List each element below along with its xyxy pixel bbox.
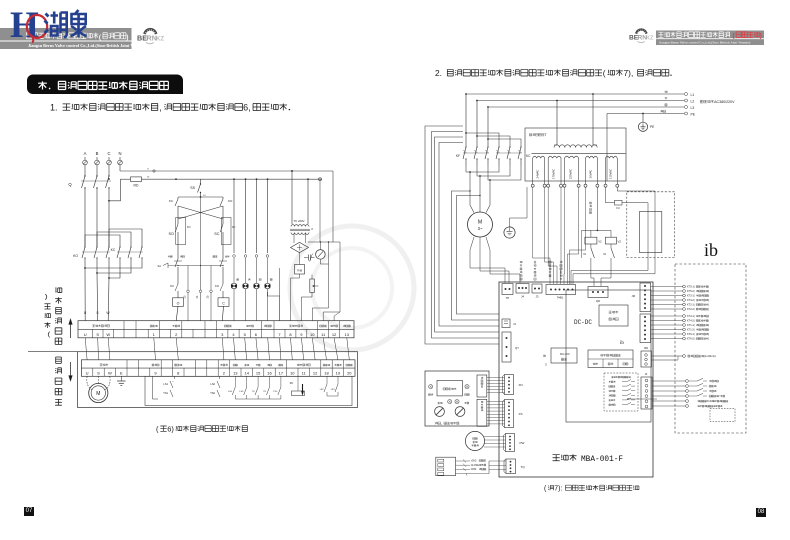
spare dashed box xyxy=(710,409,735,422)
svg-text:DC24V: DC24V xyxy=(707,401,715,403)
svg-text:220VAC: 220VAC xyxy=(569,169,573,179)
svg-text:170VAC: 170VAC xyxy=(552,169,556,179)
ib isolation box xyxy=(543,348,577,366)
svg-text:W: W xyxy=(106,311,110,315)
svg-text:QD: QD xyxy=(596,299,600,303)
connector JX xyxy=(641,373,652,409)
svg-text:2: 2 xyxy=(223,371,226,376)
logo char hu xyxy=(45,12,67,38)
right header banner strip xyxy=(656,31,764,46)
svg-text:KT5-2(: KT5-2( xyxy=(687,290,695,293)
contactor KO main contacts xyxy=(73,246,110,262)
earth terminal PE xyxy=(638,114,654,132)
aux contact KO nc xyxy=(220,197,233,218)
svg-text:): ) xyxy=(708,299,709,302)
remote input dashed box xyxy=(604,373,638,411)
connector TQ xyxy=(504,459,525,474)
svg-text:KC: KC xyxy=(111,248,116,252)
svg-text:MBA-001-F: MBA-001-F xyxy=(581,456,623,464)
ib dashed enclosure xyxy=(675,264,746,433)
connector J1 xyxy=(502,319,516,328)
svg-text:LK3: LK3 xyxy=(331,389,336,391)
knob 2 xyxy=(455,407,465,417)
svg-text:V2: V2 xyxy=(618,240,622,244)
handle SA xyxy=(158,263,178,268)
motor to board wires xyxy=(470,237,520,283)
phase label N xyxy=(118,151,121,156)
svg-text:ib: ib xyxy=(704,240,718,260)
svg-text:1.: 1. xyxy=(50,103,58,113)
svg-text:KT2-2(: KT2-2( xyxy=(687,308,695,311)
arrow up xyxy=(69,319,73,339)
ribbon XS xyxy=(487,402,505,424)
svg-text:U: U xyxy=(84,332,87,337)
coil KO xyxy=(173,298,184,321)
output terminals group1 xyxy=(651,285,710,311)
svg-text:16: 16 xyxy=(267,371,272,376)
svg-text:LS2: LS2 xyxy=(210,382,215,386)
svg-text:V2: V2 xyxy=(603,253,607,256)
svg-text:O: O xyxy=(177,301,180,305)
connector 7B1 xyxy=(546,285,576,300)
upper terminal strip frame xyxy=(78,321,354,338)
svg-text:KZ: KZ xyxy=(156,37,164,43)
svg-text:KO: KO xyxy=(215,284,220,288)
svg-text:14: 14 xyxy=(244,371,249,376)
svg-text:KT3-2(: KT3-2( xyxy=(687,299,695,302)
panel label xyxy=(435,422,459,425)
connector J4 xyxy=(516,284,529,299)
svg-text:LS4: LS4 xyxy=(228,391,233,393)
svg-text:JM: JM xyxy=(632,294,635,298)
bridge rectifier xyxy=(291,242,309,252)
lamp open pos xyxy=(429,385,433,396)
neutral drop wire xyxy=(606,114,608,182)
torque connector xyxy=(436,457,506,476)
connector TP xyxy=(502,284,513,301)
svg-text:7):: 7): xyxy=(554,486,562,493)
logo char quan xyxy=(71,10,87,37)
svg-text:KO: KO xyxy=(187,226,191,229)
svg-text:36VAC: 36VAC xyxy=(589,170,593,179)
connector JM lower xyxy=(640,314,651,343)
reversing interconnect wires xyxy=(84,229,142,321)
svg-text:J4: J4 xyxy=(521,295,524,299)
svg-text:U: U xyxy=(86,371,89,376)
svg-text:11: 11 xyxy=(302,371,307,376)
svg-text:TC 220V: TC 220V xyxy=(293,219,304,223)
svg-text:KT3-1(: KT3-1( xyxy=(687,295,695,298)
left banner english name xyxy=(28,43,147,48)
svg-text:RD: RD xyxy=(134,184,139,188)
svg-text:9: 9 xyxy=(300,332,303,337)
phase label C xyxy=(107,151,110,156)
svg-text:Q: Q xyxy=(68,182,72,187)
dashed resistor enclosure xyxy=(627,192,675,258)
logo letter H xyxy=(10,5,39,46)
connector JM1 xyxy=(641,347,652,367)
svg-text:THB: THB xyxy=(297,269,302,273)
connector PW xyxy=(504,434,525,452)
svg-text:8: 8 xyxy=(177,371,180,376)
arrow down xyxy=(69,362,73,382)
svg-text:): ) xyxy=(708,338,709,341)
relay feed bus xyxy=(582,230,612,258)
connector XN xyxy=(503,375,523,395)
wire labels vertical xyxy=(520,261,562,280)
svg-text:8: 8 xyxy=(147,169,149,171)
ib small label xyxy=(620,341,624,346)
secondary drop wires xyxy=(533,187,655,284)
svg-text:19: 19 xyxy=(336,371,341,376)
svg-text:SO: SO xyxy=(169,232,175,236)
secondary winding 170VAC xyxy=(547,156,563,187)
svg-text:LS1: LS1 xyxy=(163,382,168,386)
transformer primary taps xyxy=(556,93,594,145)
svg-text:TQ: TQ xyxy=(521,465,526,469)
power input label xyxy=(700,100,735,104)
svg-text:KZ: KZ xyxy=(646,36,654,42)
svg-text:12: 12 xyxy=(332,332,337,337)
svg-text:H: H xyxy=(10,5,39,46)
svg-text:C: C xyxy=(222,301,225,305)
limit switch SC xyxy=(214,218,235,245)
svg-text:N: N xyxy=(118,151,121,156)
svg-text:LS5: LS5 xyxy=(239,391,244,393)
limit switches LS2 TS2 xyxy=(210,376,220,397)
logo red ring xyxy=(27,15,47,43)
motor earth xyxy=(504,187,527,238)
svg-text:13: 13 xyxy=(345,332,350,337)
svg-text:A: A xyxy=(84,151,87,156)
faint scan watermark xyxy=(290,226,414,350)
svg-text:): ) xyxy=(708,308,709,311)
svg-text:SC: SC xyxy=(214,232,220,236)
aux contact before coil O xyxy=(170,281,178,298)
connector QD xyxy=(588,287,608,304)
connector QY xyxy=(502,332,519,362)
breaker Q xyxy=(68,168,111,192)
svg-text:10: 10 xyxy=(310,332,315,337)
svg-text:T: T xyxy=(545,133,547,137)
main board title xyxy=(553,454,624,464)
fuse FU3 phase C xyxy=(107,157,112,168)
phase labels above strip xyxy=(84,311,111,315)
svg-text:L2: L2 xyxy=(691,99,695,103)
svg-text:110VAC: 110VAC xyxy=(608,169,612,179)
svg-text:2.: 2. xyxy=(435,68,442,78)
svg-text:,: , xyxy=(159,103,162,113)
svg-text:10: 10 xyxy=(290,371,295,376)
svg-text:V2: V2 xyxy=(598,240,602,244)
svg-text:25: 25 xyxy=(207,295,210,298)
hold wire xyxy=(177,265,223,266)
infrared remote xyxy=(465,431,505,450)
svg-text:24VAC: 24VAC xyxy=(536,170,540,179)
svg-text:B: B xyxy=(96,151,99,156)
svg-text:TP: TP xyxy=(506,296,510,300)
svg-text:6,: 6, xyxy=(243,103,251,113)
svg-text:KT4-1(: KT4-1( xyxy=(687,315,695,318)
svg-text:2: 2 xyxy=(175,332,178,337)
board bottom output wires xyxy=(627,398,657,400)
svg-text:1: 1 xyxy=(153,332,156,337)
display panel box xyxy=(425,371,489,426)
svg-text:20: 20 xyxy=(347,371,352,376)
svg-text:): ) xyxy=(708,304,709,307)
connector XS xyxy=(503,400,523,428)
svg-text:7),: 7), xyxy=(624,68,634,78)
svg-text:AC380/220V: AC380/220V xyxy=(714,100,735,104)
svg-text:): ) xyxy=(126,34,128,41)
svg-text:JM1: JM1 xyxy=(644,347,649,350)
section title pill xyxy=(27,75,183,95)
contactor KC2 xyxy=(496,146,531,166)
svg-text:5: 5 xyxy=(244,332,247,337)
connector JM upper xyxy=(632,283,651,312)
pushbutton labels xyxy=(168,256,230,258)
lamp close pos xyxy=(465,385,470,396)
fuse FU4 phase N xyxy=(118,157,123,168)
phase drop wires xyxy=(465,93,521,147)
svg-text:ib: ib xyxy=(543,354,546,358)
caption fig7 xyxy=(544,485,639,492)
selector switch SS xyxy=(190,179,206,197)
LCD box xyxy=(437,380,462,396)
lower terminal strip xyxy=(81,360,355,377)
svg-text:XS: XS xyxy=(519,412,523,416)
secondary winding 220VAC xyxy=(563,156,580,187)
connector J3 xyxy=(532,284,542,299)
motor M 3ph xyxy=(468,205,493,237)
power line L3 xyxy=(488,104,694,110)
page number 07 xyxy=(24,507,34,516)
svg-text:): ) xyxy=(708,320,709,323)
aux switches 13-17 xyxy=(228,376,281,399)
right feed wires xyxy=(312,171,340,321)
backup power box xyxy=(599,305,628,326)
svg-text:S: S xyxy=(97,371,100,376)
svg-text:8: 8 xyxy=(312,228,314,231)
svg-text:PE: PE xyxy=(650,125,654,129)
svg-text:TSC: TSC xyxy=(273,391,278,393)
fuse FU1 phase A xyxy=(83,157,88,168)
phase label B xyxy=(96,151,99,156)
svg-text:U: U xyxy=(84,311,87,315)
ground symbol xyxy=(117,376,126,385)
svg-text:6): 6) xyxy=(167,425,174,434)
svg-text:S: S xyxy=(96,332,99,337)
control bus xyxy=(142,178,323,181)
caption fig6 xyxy=(156,425,247,434)
aux contact KC nc xyxy=(169,197,178,218)
svg-text:KT6-1(: KT6-1( xyxy=(687,333,695,336)
svg-text:11: 11 xyxy=(321,332,326,337)
power line PE xyxy=(607,110,696,116)
fuse FU xyxy=(571,187,648,284)
svg-text:V2: V2 xyxy=(583,253,587,256)
svg-text:L1: L1 xyxy=(691,93,695,97)
page number 08 xyxy=(756,508,766,517)
svg-text:KT5-1(: KT5-1( xyxy=(687,286,695,289)
rectifier top feed xyxy=(308,241,340,247)
limit switches LS1 TS1 xyxy=(153,376,175,399)
fuse RD xyxy=(108,177,150,202)
motor M xyxy=(87,376,110,402)
output terminals group2 xyxy=(651,315,710,341)
svg-text:J3: J3 xyxy=(536,295,539,299)
aux contact before coil C xyxy=(215,281,223,298)
main board outline xyxy=(499,282,653,477)
svg-text:15: 15 xyxy=(256,371,261,376)
ib big label xyxy=(704,240,718,260)
svg-text:CLOSE: CLOSE xyxy=(471,464,480,467)
switches 18-19 xyxy=(320,376,338,396)
svg-text:): ) xyxy=(708,286,709,289)
secondary winding 24VAC xyxy=(531,156,546,187)
svg-text:18: 18 xyxy=(324,371,329,376)
svg-text:PE: PE xyxy=(691,112,696,116)
relay V2 right xyxy=(601,237,621,286)
transformer TC xyxy=(290,170,314,243)
bus N xyxy=(120,168,333,172)
coil KC xyxy=(218,298,229,321)
power line L1 xyxy=(466,91,694,97)
analog output terminal xyxy=(652,354,716,360)
right gear logo xyxy=(629,28,654,42)
svg-text:TK: TK xyxy=(252,391,255,393)
svg-text:12: 12 xyxy=(313,371,318,376)
svg-text:E: E xyxy=(120,371,123,376)
svg-text:): ) xyxy=(708,315,709,318)
svg-text:(: ( xyxy=(603,68,606,78)
svg-text:KT6-2(: KT6-2( xyxy=(687,338,695,341)
switch compartment xyxy=(145,376,352,405)
pushbutton open xyxy=(174,245,182,281)
fuse FU2 phase B xyxy=(95,157,100,168)
transformer primary coil xyxy=(532,145,626,154)
upper strip cells xyxy=(84,321,351,338)
svg-text:): ) xyxy=(708,295,709,298)
svg-text:DC-DC: DC-DC xyxy=(560,352,570,356)
svg-text:C: C xyxy=(107,151,110,156)
svg-text:TK: TK xyxy=(263,391,266,393)
svg-text:9: 9 xyxy=(154,371,157,376)
svg-text:QY: QY xyxy=(515,346,519,350)
DC-DC label xyxy=(574,319,592,326)
power line L2 xyxy=(477,97,694,103)
svg-text:23: 23 xyxy=(184,295,187,298)
panel connector strips xyxy=(477,375,487,426)
svg-text:JX: JX xyxy=(645,373,648,376)
inter-strip wires xyxy=(85,338,349,360)
ribbon XN xyxy=(487,378,505,393)
svg-text:KT4-2(: KT4-2( xyxy=(687,320,695,323)
svg-text:): ) xyxy=(708,290,709,293)
svg-text:KO: KO xyxy=(228,199,233,203)
svg-text:COM: COM xyxy=(471,468,477,471)
svg-text:KF: KF xyxy=(456,154,460,158)
svg-text:L3: L3 xyxy=(691,106,695,110)
svg-text:KO: KO xyxy=(73,254,78,258)
indicator lamps xyxy=(231,179,272,321)
svg-text:TS2: TS2 xyxy=(210,391,215,395)
phase label A xyxy=(84,151,87,156)
phase wires to contactors xyxy=(85,178,110,247)
svg-text:Jiangsu Berns Valve control Co: Jiangsu Berns Valve control Co.,Ltd.(Sin… xyxy=(28,43,147,48)
board inner area xyxy=(566,290,651,422)
pushbutton close xyxy=(219,245,227,281)
svg-text:RC: RC xyxy=(290,382,294,385)
svg-text:24: 24 xyxy=(196,295,199,298)
svg-text:10: 10 xyxy=(147,177,150,179)
svg-text:17: 17 xyxy=(279,371,284,376)
svg-text:W: W xyxy=(106,332,110,337)
wire QD feed xyxy=(0,0,1,1)
svg-text:+5V0: +5V0 xyxy=(471,460,477,463)
panel meter xyxy=(316,242,326,259)
svg-text:KC: KC xyxy=(170,284,174,288)
left header banner strip xyxy=(0,28,132,49)
svg-text:4: 4 xyxy=(232,332,235,337)
mid terminal taps xyxy=(184,197,213,321)
remote input terminals xyxy=(652,378,728,407)
svg-text:/: / xyxy=(719,395,720,398)
svg-text:PW: PW xyxy=(520,441,525,445)
svg-text:(4-20mA): (4-20mA) xyxy=(704,354,716,358)
svg-text:7#B1: 7#B1 xyxy=(557,296,564,300)
contactor KF xyxy=(456,146,489,166)
side label control box wiring xyxy=(44,287,61,344)
svg-text:S: S xyxy=(96,311,99,315)
svg-text:KC: KC xyxy=(526,154,531,158)
wire to terminal 7 xyxy=(268,268,280,321)
svg-text:TS1: TS1 xyxy=(163,391,168,395)
right banner english name xyxy=(659,41,751,46)
relay V2 left xyxy=(583,237,602,286)
left loop wires xyxy=(425,126,499,344)
left banner company name xyxy=(26,33,128,41)
svg-text:LK2: LK2 xyxy=(320,389,325,391)
svg-text:3~: 3~ xyxy=(478,226,483,231)
svg-text:DC-DC: DC-DC xyxy=(574,319,592,326)
secondary winding 110VAC xyxy=(604,156,619,187)
svg-text:): ) xyxy=(760,33,762,40)
svg-text:J1: J1 xyxy=(513,322,516,326)
svg-text:KT2-1(: KT2-1( xyxy=(687,304,695,307)
svg-text:XN: XN xyxy=(519,383,523,387)
svg-text:3: 3 xyxy=(221,332,224,337)
lamps fault infrared xyxy=(438,400,469,405)
interlock rail xyxy=(178,196,223,198)
contactor merge wires xyxy=(466,166,521,205)
analog output box xyxy=(588,350,633,368)
paragraph 1 xyxy=(50,103,290,113)
svg-text:(: ( xyxy=(544,486,547,493)
actuator enclosure xyxy=(28,352,358,408)
transformer box xyxy=(525,128,626,181)
right banner company name xyxy=(658,32,761,40)
svg-text:W: W xyxy=(108,371,112,376)
svg-text:SS: SS xyxy=(190,186,195,190)
svg-text:7: 7 xyxy=(278,332,281,337)
thermal box THB xyxy=(295,253,305,274)
svg-text:SA: SA xyxy=(158,264,162,268)
knob 1 xyxy=(435,407,445,417)
cross interlock wires xyxy=(178,206,223,219)
paragraph 2 xyxy=(435,68,672,78)
svg-text:(: ( xyxy=(156,425,159,434)
